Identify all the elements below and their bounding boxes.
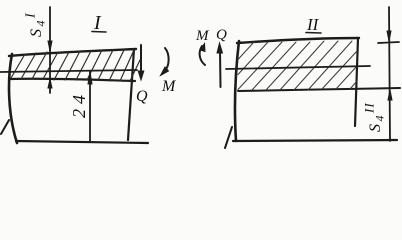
svg-text:S4I: S4I bbox=[24, 11, 48, 37]
svg-text:Q: Q bbox=[216, 27, 227, 43]
svg-text:S4II: S4II bbox=[362, 102, 387, 132]
wire right edge of section II bbox=[355, 38, 358, 126]
svg-text:II: II bbox=[306, 15, 320, 34]
wire top edge of section II bbox=[237, 38, 359, 43]
axis line y of section I bbox=[0, 70, 137, 72]
label I bbox=[92, 12, 106, 34]
dimension line Sy I bbox=[48, 7, 52, 93]
moment arc M of figure I bbox=[161, 48, 169, 76]
extension tick at top edge level bbox=[378, 42, 399, 43]
svg-text:M: M bbox=[195, 28, 210, 44]
wire top edge of section I bbox=[9, 49, 136, 56]
hatching of strip I bbox=[11, 50, 140, 81]
axis line y of section II bbox=[226, 66, 370, 69]
wire bottom edge of section I bbox=[16, 141, 148, 143]
wire left edge of section I bbox=[9, 54, 17, 143]
dimension line Sy II bbox=[387, 7, 392, 141]
svg-text:M: M bbox=[161, 78, 177, 95]
svg-text:I: I bbox=[93, 12, 102, 34]
arrow Q of figure II bbox=[217, 43, 223, 87]
svg-text:Q: Q bbox=[136, 88, 148, 105]
wire right edge of section I bbox=[128, 49, 134, 140]
wire bottom edge of section II bbox=[233, 140, 397, 141]
label II bbox=[306, 15, 321, 34]
hatched strip bottom line of section II (with extension) bbox=[238, 88, 400, 91]
figure I: cross-section outline bbox=[9, 49, 148, 143]
moment arc M of figure II bbox=[200, 44, 205, 66]
dimension line 24 bbox=[88, 72, 92, 142]
hatched strip bottom line of section I bbox=[11, 79, 135, 81]
svg-text:24: 24 bbox=[69, 90, 89, 118]
figure II: cross-section outline bbox=[233, 38, 397, 141]
hatching of strip II bbox=[238, 41, 357, 90]
wire left edge of section II bbox=[235, 41, 239, 141]
arrow Q of figure I bbox=[138, 45, 144, 80]
break mark bottom-left of figure I bbox=[1, 120, 9, 134]
break mark bottom-left of figure II bbox=[225, 127, 232, 148]
